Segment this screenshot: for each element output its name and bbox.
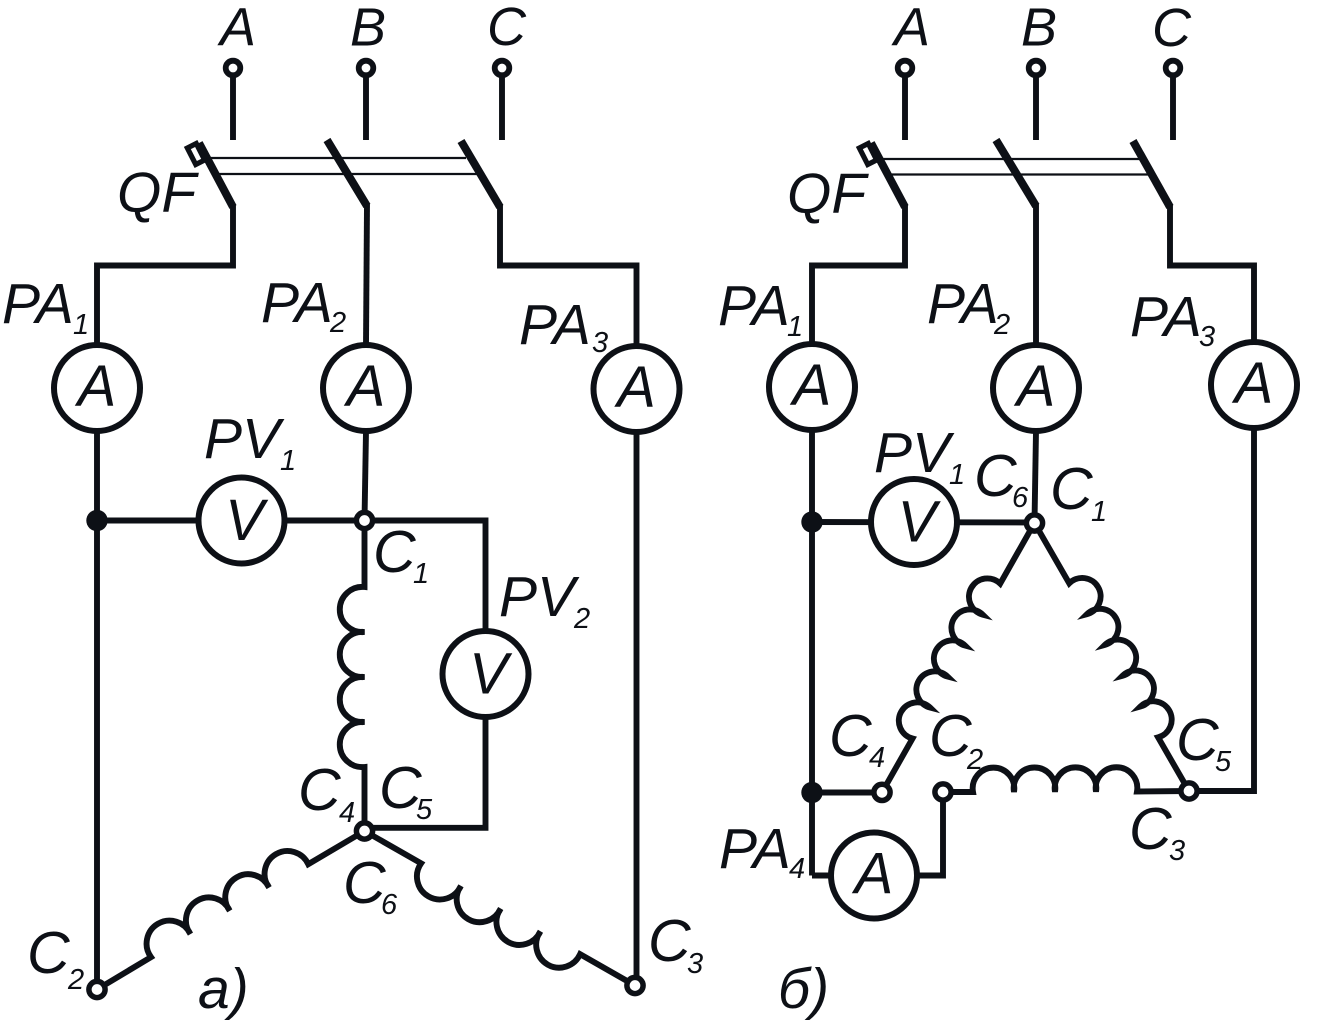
voltmeter PV2 bbox=[443, 631, 529, 717]
wire: terminal B stub bbox=[363, 75, 369, 140]
wire: terminal A stub bbox=[230, 75, 236, 140]
ammeter PA2 (right) bbox=[993, 345, 1079, 431]
wire: QF pole B to PA2 bbox=[366, 204, 367, 345]
svg-text:A: A bbox=[217, 0, 256, 58]
wire: terminal B stub (right) bbox=[1033, 75, 1039, 140]
ammeter PA4 (right) bbox=[831, 833, 917, 919]
breaker QF pole A tip square (right) bbox=[859, 143, 876, 164]
svg-text:C: C bbox=[929, 703, 972, 769]
breaker QF pole C blade bbox=[461, 141, 500, 207]
breaker QF pole A blade (right) bbox=[871, 143, 905, 207]
svg-text:C: C bbox=[27, 920, 70, 986]
svg-text:C: C bbox=[1152, 0, 1192, 58]
wire: junction to PV1 to node C6C1 bbox=[812, 519, 1035, 525]
breaker QF pole A tip square bbox=[187, 143, 204, 164]
svg-text:V: V bbox=[469, 642, 513, 707]
breaker QF linkage bar line 1 bbox=[206, 157, 466, 159]
terminal C (right) bbox=[1166, 61, 1181, 76]
svg-text:C: C bbox=[648, 908, 691, 974]
svg-text:1: 1 bbox=[280, 445, 296, 477]
svg-text:1: 1 bbox=[413, 558, 429, 590]
node C3 bbox=[627, 977, 643, 993]
ammeter PA2 bbox=[323, 345, 409, 431]
svg-text:3: 3 bbox=[1199, 321, 1215, 353]
svg-text:C: C bbox=[1129, 796, 1172, 862]
svg-text:2: 2 bbox=[993, 309, 1010, 341]
svg-text:A: A bbox=[614, 355, 656, 420]
breaker QF linkage bar line 2 bbox=[217, 173, 480, 175]
svg-text:V: V bbox=[225, 488, 269, 553]
wire: terminal A stub (right) bbox=[902, 75, 908, 140]
svg-text:6: 6 bbox=[381, 889, 398, 921]
svg-text:C: C bbox=[974, 443, 1017, 509]
svg-text:B: B bbox=[1021, 0, 1057, 58]
svg-text:3: 3 bbox=[687, 948, 703, 980]
terminal B (right) bbox=[1029, 61, 1044, 76]
svg-text:а): а) bbox=[198, 957, 249, 1021]
wire: QF pole C to PA3 bbox=[500, 204, 637, 346]
svg-text:A: A bbox=[1014, 354, 1056, 419]
svg-text:A: A bbox=[891, 0, 930, 58]
svg-text:1: 1 bbox=[1091, 496, 1107, 528]
node C4 (right) bbox=[874, 784, 890, 800]
wire: PA3 down to C5 (right) bbox=[1189, 428, 1254, 791]
wire: PA2 down to node C6C1 (right) bbox=[1035, 431, 1037, 523]
svg-text:PA: PA bbox=[519, 293, 591, 357]
node C2 bbox=[89, 981, 105, 997]
svg-text:2: 2 bbox=[966, 744, 983, 776]
terminal A bbox=[226, 61, 241, 76]
svg-text:4: 4 bbox=[789, 853, 805, 885]
terminal B bbox=[359, 61, 374, 76]
svg-text:QF: QF bbox=[117, 161, 199, 225]
wire: QF pole B to PA2 (right) bbox=[1033, 204, 1039, 345]
delta winding C1-C4 (left side) bbox=[882, 523, 1035, 792]
wire: PA1 down through junctions to PA4 level (right) bbox=[809, 430, 815, 876]
svg-text:2: 2 bbox=[573, 603, 590, 635]
svg-text:A: A bbox=[344, 354, 386, 419]
breaker QF pole B blade bbox=[327, 140, 367, 206]
wire: QF pole A to PA1 (right) bbox=[812, 204, 905, 344]
ammeter PA1 (right) bbox=[769, 344, 855, 430]
svg-text:A: A bbox=[1232, 351, 1274, 416]
svg-text:C: C bbox=[829, 703, 872, 769]
svg-text:A: A bbox=[852, 842, 894, 907]
wire: QF pole A to PA1 bbox=[97, 204, 233, 345]
terminal C bbox=[495, 61, 510, 76]
node C1 bbox=[356, 512, 372, 528]
breaker QF pole B blade (right) bbox=[996, 140, 1036, 206]
breaker QF pole C blade (right) bbox=[1133, 141, 1170, 207]
svg-text:V: V bbox=[898, 490, 942, 555]
delta winding C2-C3 (bottom side) bbox=[943, 767, 1189, 792]
voltmeter PV1 bbox=[199, 478, 285, 564]
svg-text:C: C bbox=[373, 519, 416, 585]
svg-text:PV: PV bbox=[874, 421, 955, 485]
wire: terminal C stub bbox=[499, 75, 505, 140]
wire: terminal C stub (right) bbox=[1170, 75, 1176, 140]
svg-text:2: 2 bbox=[329, 307, 346, 339]
svg-text:3: 3 bbox=[592, 327, 608, 359]
wire: PA4 branch to C2 bbox=[812, 792, 943, 876]
wire: junction 2 to C4 bbox=[812, 790, 882, 796]
svg-text:4: 4 bbox=[869, 742, 885, 774]
winding coil C1-C4 (vertical phase winding) bbox=[340, 521, 365, 832]
terminal A (right) bbox=[898, 61, 913, 76]
svg-text:A: A bbox=[75, 354, 117, 419]
svg-text:4: 4 bbox=[339, 797, 355, 829]
junction dot (PA1/PV1) bbox=[86, 510, 107, 531]
svg-text:6: 6 bbox=[1012, 482, 1029, 514]
wire: PA3 down to C3 bbox=[635, 432, 637, 986]
breaker QF linkage bar line 1 (right) bbox=[878, 158, 1142, 160]
svg-text:PA: PA bbox=[1130, 285, 1202, 349]
svg-text:C: C bbox=[298, 757, 341, 823]
ammeter PA3 bbox=[594, 346, 680, 432]
svg-text:б): б) bbox=[778, 957, 829, 1021]
svg-text:1: 1 bbox=[73, 309, 89, 341]
svg-text:PA: PA bbox=[2, 272, 74, 336]
node C2 (right) bbox=[935, 784, 951, 800]
svg-text:1: 1 bbox=[787, 311, 803, 343]
svg-text:5: 5 bbox=[416, 794, 433, 826]
node C5/C3 (right) bbox=[1181, 783, 1197, 799]
wire: QF pole C to PA3 (right) bbox=[1170, 204, 1254, 342]
winding coil node-C3 (lower right) bbox=[365, 831, 636, 986]
svg-text:C: C bbox=[487, 0, 527, 57]
svg-text:PA: PA bbox=[719, 817, 791, 881]
voltmeter PV1 (right) bbox=[871, 479, 957, 565]
svg-text:PV: PV bbox=[204, 407, 285, 471]
junction dot (PA1/C4 right) bbox=[801, 782, 822, 803]
svg-text:2: 2 bbox=[67, 964, 84, 996]
node C6/C1 (right) bbox=[1026, 515, 1042, 531]
winding coil node-C2 (lower left) bbox=[97, 831, 365, 990]
svg-text:PA: PA bbox=[718, 274, 790, 338]
junction dot (PA1/PV1 right) bbox=[801, 511, 822, 532]
svg-text:5: 5 bbox=[1215, 746, 1232, 778]
wire: PA2 down to C1 bbox=[365, 431, 367, 521]
svg-text:C: C bbox=[343, 850, 386, 916]
svg-text:PA: PA bbox=[927, 272, 999, 336]
svg-text:3: 3 bbox=[1169, 835, 1185, 867]
node C4/C5 bbox=[356, 823, 372, 839]
wire: node to PV1 to C1 and PV2 branch bbox=[97, 521, 486, 828]
breaker QF linkage bar line 2 (right) bbox=[889, 173, 1152, 175]
svg-text:1: 1 bbox=[949, 459, 965, 491]
svg-text:C: C bbox=[1176, 707, 1219, 773]
breaker QF pole A blade bbox=[199, 143, 233, 207]
svg-text:PA: PA bbox=[261, 271, 333, 335]
svg-text:A: A bbox=[790, 353, 832, 418]
ammeter PA3 (right) bbox=[1211, 342, 1297, 428]
svg-text:C: C bbox=[1050, 456, 1093, 522]
ammeter PA1 bbox=[54, 345, 140, 431]
svg-text:PV: PV bbox=[499, 565, 580, 629]
svg-text:B: B bbox=[350, 0, 386, 58]
delta winding C6-C5 (right side) bbox=[1035, 523, 1190, 791]
wire: PA1 down to C2 bbox=[94, 431, 100, 990]
svg-text:QF: QF bbox=[787, 162, 869, 226]
